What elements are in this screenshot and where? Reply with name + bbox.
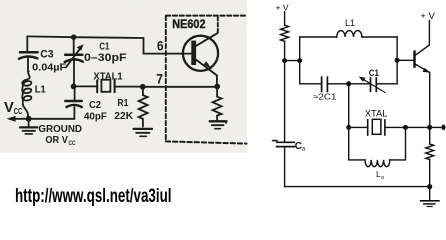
svg-text:GROUND: GROUND bbox=[38, 124, 82, 135]
svg-text:CC: CC bbox=[14, 107, 23, 116]
capacitor Ca bbox=[277, 61, 295, 187]
ground under R1 bbox=[134, 129, 152, 136]
resistor R2 emitter bbox=[213, 87, 222, 121]
ground under emitter resistor bbox=[210, 121, 227, 128]
svg-text:L1: L1 bbox=[345, 18, 355, 28]
svg-text:6: 6 bbox=[157, 38, 164, 53]
svg-text:C1: C1 bbox=[369, 68, 380, 79]
wire ground stub bbox=[429, 187, 431, 200]
wire emitter down bbox=[216, 75, 218, 86]
wire base bbox=[397, 59, 414, 61]
scan artifact speck bbox=[225, 122, 227, 124]
url caption bbox=[15, 186, 172, 207]
trimmer capacitor C1 bbox=[65, 37, 84, 84]
emitter arrow head Q2 bbox=[423, 68, 430, 73]
svg-text:22K: 22K bbox=[114, 110, 133, 122]
ground under Vcc junction bbox=[20, 119, 37, 134]
crystal XTAL1 bbox=[74, 80, 143, 93]
svg-text:C3: C3 bbox=[40, 49, 53, 61]
wire xtal row left bbox=[349, 126, 368, 128]
svg-text:0.04µF: 0.04µF bbox=[32, 61, 67, 73]
svg-text:+ V: + V bbox=[420, 11, 435, 22]
svg-text:C2: C2 bbox=[89, 99, 101, 111]
svg-text:R1: R1 bbox=[117, 97, 128, 109]
crystal XTAL bbox=[368, 119, 385, 135]
transistor Q1 circle bbox=[183, 36, 218, 71]
scan paper background bbox=[0, 0, 247, 153]
node Vcc feed junction bbox=[26, 116, 32, 122]
transistor Q1 base bar bbox=[191, 41, 196, 65]
capacitor C2 bbox=[65, 89, 82, 119]
svg-text:V: V bbox=[4, 100, 14, 116]
wire 2C1 to midpoint bbox=[327, 83, 348, 85]
svg-text:0–30pF: 0–30pF bbox=[84, 52, 127, 64]
node cap midpoint bbox=[346, 81, 351, 86]
svg-text:40pF: 40pF bbox=[84, 111, 107, 123]
svg-text:o: o bbox=[381, 175, 384, 181]
wire L1 to junction bbox=[27, 114, 30, 119]
resistor R1 bbox=[139, 87, 148, 127]
svg-text:≈2C1: ≈2C1 bbox=[313, 92, 337, 102]
wire bottom rail to C2 bbox=[29, 118, 75, 120]
node tank left tap bbox=[297, 58, 302, 63]
node L0 right bbox=[403, 125, 408, 130]
node feed left bbox=[282, 58, 287, 63]
resistor R4 emitter bbox=[426, 144, 434, 160]
NE602 dashed box top edge bbox=[166, 15, 246, 17]
svg-text:L1: L1 bbox=[35, 84, 46, 96]
wire +V supply lead bbox=[284, 12, 286, 25]
inductor L1 bbox=[337, 31, 362, 37]
wire emitter down bbox=[429, 72, 431, 144]
left circuit labels bbox=[4, 17, 206, 147]
capacitor C3 bbox=[19, 36, 38, 71]
wire to bottom rail bbox=[429, 160, 431, 187]
node C1 top junction bbox=[71, 34, 77, 40]
capacitor 2C1 bbox=[322, 77, 328, 91]
NE602 dashed box bottom edge bbox=[166, 141, 247, 143]
node emitter junction bbox=[214, 84, 220, 90]
wire top rail C3 to C1 to pin6 bend bbox=[27, 36, 191, 53]
transistor Q1 emitter bbox=[196, 60, 217, 75]
output terminal blob bbox=[442, 125, 446, 131]
wire tank top left bbox=[300, 36, 337, 38]
transistor Q2 base bar bbox=[413, 52, 415, 67]
wire xtal row right bbox=[385, 126, 444, 128]
wire L0 left vertical bbox=[349, 127, 365, 159]
wire L0 right vertical bbox=[390, 127, 406, 159]
wire tank right vertical bbox=[396, 37, 398, 84]
wire feed jumper bbox=[285, 60, 300, 62]
inductor L1 bbox=[22, 72, 31, 115]
svg-text:7: 7 bbox=[156, 70, 163, 86]
emitter arrow head bbox=[204, 61, 212, 69]
transistor Q1 collector bbox=[196, 33, 218, 46]
Vcc arrow head bbox=[7, 116, 16, 122]
node xtal left bbox=[346, 125, 351, 130]
node bottom right bbox=[427, 184, 432, 189]
node base tap bbox=[395, 58, 400, 63]
wire supply to feed node bbox=[284, 41, 286, 60]
wire Vcc arrow lead bbox=[15, 118, 29, 120]
scan artifact dash bbox=[273, 140, 278, 142]
svg-text:CC: CC bbox=[69, 140, 76, 147]
wire tank top right bbox=[362, 36, 397, 38]
ground right bbox=[421, 201, 439, 207]
wire bottom rail bbox=[285, 186, 430, 188]
svg-text:XTAL: XTAL bbox=[365, 108, 388, 119]
NE602 dashed box left edge bbox=[165, 16, 167, 141]
transistor Q2 emitter bbox=[415, 64, 430, 73]
wire midpoint to C1 bbox=[349, 83, 371, 85]
wire C1 to tank right bbox=[376, 83, 397, 85]
wire cap row left bbox=[300, 83, 322, 85]
node R1 top junction bbox=[140, 84, 146, 90]
svg-text:OR V: OR V bbox=[45, 135, 68, 146]
node emitter xtal row bbox=[427, 125, 432, 130]
collector dashed pin lead bbox=[217, 16, 219, 33]
wire pin7 row to emitter bbox=[143, 86, 218, 88]
resistor R3 supply bbox=[281, 25, 289, 41]
wire midpoint down to xtal row bbox=[348, 84, 350, 128]
node xtal row left junction bbox=[71, 84, 77, 90]
svg-text:XTAL1: XTAL1 bbox=[93, 70, 122, 82]
transistor Q2 collector bbox=[415, 21, 430, 56]
svg-text:+ V: + V bbox=[276, 2, 289, 12]
svg-text:C1: C1 bbox=[99, 41, 109, 53]
svg-text:NE602: NE602 bbox=[172, 17, 205, 31]
wire tank left vertical bbox=[299, 37, 301, 84]
inductor L0 bbox=[365, 160, 390, 167]
svg-text:http://www.qsl.net/va3iul: http://www.qsl.net/va3iul bbox=[15, 186, 172, 207]
right circuit labels bbox=[276, 2, 436, 181]
svg-text:a: a bbox=[302, 147, 306, 153]
variable capacitor C1 bbox=[359, 77, 385, 93]
